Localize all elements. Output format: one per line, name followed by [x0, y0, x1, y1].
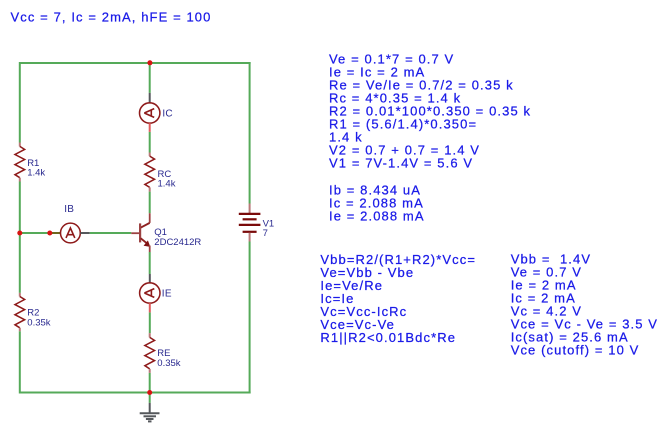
resistor R2 — [15, 293, 25, 331]
wire right vertical (battery to bottom corner) — [249, 242, 251, 394]
label RC value — [158, 169, 176, 190]
label RE value — [157, 348, 180, 369]
wire Q1 emitter to IE meter — [149, 252, 151, 274]
svg-text:IB: IB — [64, 204, 74, 215]
wire ground stub — [149, 393, 151, 403]
svg-text:IE: IE — [162, 288, 172, 299]
ammeter IB — [52, 223, 90, 243]
svg-text:0.35k: 0.35k — [27, 317, 50, 328]
text block calculations upper — [329, 51, 531, 170]
wire RC to Q1 collector — [149, 192, 151, 214]
svg-text:Q1: Q1 — [154, 227, 167, 238]
label R2 value — [27, 308, 50, 329]
wire middle (top junction to IC meter) — [149, 62, 151, 93]
resistor RE — [145, 333, 155, 373]
wire IC meter to RC — [149, 132, 151, 153]
transistor Q1 — [131, 213, 150, 252]
svg-text:0.35k: 0.35k — [157, 358, 180, 369]
wire base right segment (IB meter to Q1 base) — [90, 232, 132, 234]
svg-text:2DC2412R: 2DC2412R — [154, 237, 201, 248]
node junction top — [147, 60, 152, 65]
svg-text:Ie = 2.088 mA: Ie = 2.088 mA — [329, 208, 425, 223]
ammeter IE — [140, 274, 160, 312]
svg-text:1.4k: 1.4k — [27, 168, 45, 179]
wire top rail — [19, 62, 251, 64]
battery V1 — [239, 204, 261, 242]
ground — [140, 403, 160, 422]
resistor R1 — [15, 143, 25, 182]
wire left vertical (R2 to bottom corner) — [19, 331, 21, 393]
svg-text:Vcc = 7, Ic = 2mA, hFE = 100: Vcc = 7, Ic = 2mA, hFE = 100 — [11, 9, 212, 24]
node IB wire dot — [47, 231, 52, 236]
wire left vertical (R1 to R2 through base junction) — [19, 182, 21, 293]
svg-text:Vce (cutoff) = 10 V: Vce (cutoff) = 10 V — [511, 343, 640, 358]
text block results — [511, 251, 658, 357]
svg-text:V1 = 7V-1.4V = 5.6 V: V1 = 7V-1.4V = 5.6 V — [329, 156, 473, 171]
svg-text:R1||R2<0.01Bdc*Re: R1||R2<0.01Bdc*Re — [320, 330, 456, 345]
label V1 value 7 — [263, 218, 275, 238]
wire right vertical (top corner to battery) — [249, 62, 251, 204]
svg-text:1.4k: 1.4k — [158, 179, 176, 190]
svg-text:7: 7 — [263, 228, 268, 239]
wire base left segment (junction to IB dot) — [20, 232, 52, 234]
text block currents — [329, 182, 425, 223]
resistor RC — [145, 153, 155, 192]
ammeter IC — [140, 93, 160, 132]
wire IE meter to RE — [149, 312, 151, 333]
node junction bottom — [147, 390, 152, 395]
wire RE to bottom junction — [149, 373, 151, 393]
wire bottom rail — [19, 392, 251, 394]
label R1 value — [27, 158, 45, 179]
wire left vertical (top corner to R1) — [19, 62, 21, 143]
text block formulas — [320, 252, 476, 345]
node junction base-left — [17, 231, 22, 236]
svg-text:IC: IC — [162, 108, 173, 119]
